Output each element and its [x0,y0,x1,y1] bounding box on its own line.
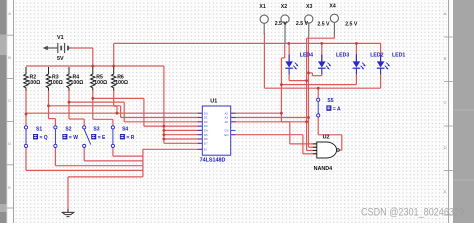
junction at (318.2,88.2) [317,87,320,90]
svg-text:100Ω: 100Ω [115,80,128,86]
resistor R3 [46,67,50,91]
svg-text:X4: X4 [329,4,335,10]
svg-text:S2: S2 [65,127,71,133]
svg-text:E: E [444,189,447,194]
junction at (48.5,105.8) [47,104,50,107]
svg-text:2.5 V: 2.5 V [345,22,358,28]
sheet left margin strip [0,0,7,223]
svg-text:C: C [8,98,11,103]
wire net 5V battery to resistor bus [70,48,93,66]
wire LED3 cathode step to X3 net [309,73,322,76]
gate U2 NAND4 [313,142,340,158]
sheet right border line [448,0,450,223]
wire U1 output A2 [232,112,282,114]
svg-text:2.5 V: 2.5 V [317,22,330,28]
wire LED4 cathode to X4 net [289,74,307,81]
probe X2 [281,15,289,44]
wire probe X4 route to U2 input 3 [307,34,335,151]
junction at (281.4,113.2) [280,112,283,115]
U1 right pin stubs [231,113,236,135]
op U1 74LS148D body [202,106,230,155]
svg-text:V1: V1 [57,35,64,41]
svg-text:U1: U1 [210,98,217,104]
svg-text:S3: S3 [93,127,99,133]
svg-text:EI: EI [204,147,207,151]
resistor R2 [24,67,28,91]
wire 5V rail riser at R6 column [113,43,115,66]
label key W [62,134,78,141]
wire S5 to X1 net [317,88,319,98]
junction at (163.9,126.1) [163,125,166,128]
right zone dividers [444,37,453,215]
svg-text:D: D [8,141,11,146]
svg-text:B: B [444,56,447,61]
resistor R5 [91,67,95,91]
junction at (163.9,130.4) [163,129,166,132]
svg-text:X2: X2 [281,4,287,10]
svg-text:100Ω: 100Ω [71,80,84,86]
resistor R6 [112,67,116,91]
svg-text:= R: = R [126,135,134,141]
svg-text:2.5 V: 2.5 V [275,21,288,27]
svg-text:D7: D7 [204,141,208,145]
wire probe X3 drop to U2 input 2 [309,36,317,147]
wire S5 to U2 output hook [318,117,342,150]
svg-text:= E: = E [98,135,106,141]
junction at (308.5,72.9) [307,72,310,75]
resistor R4 [67,67,71,91]
wire resistor top bus [26,65,164,67]
svg-text:S4: S4 [122,127,128,133]
junction at (92.8,66) [91,65,94,68]
wire net R6 jog to U1 row [114,90,117,113]
label key R [120,134,135,141]
label key A [326,105,341,112]
svg-text:5V: 5V [57,56,64,62]
U1 pin names [204,111,229,151]
junction at (163.9,134.7) [163,133,166,136]
junction at (306.6,80.6) [305,79,308,82]
svg-text:LED1: LED1 [392,52,405,58]
svg-text:LED3: LED3 [336,52,349,58]
svg-text:= A: = A [333,106,341,112]
svg-text:LED4: LED4 [300,52,313,58]
wire probe X1 drop [263,33,265,88]
svg-text:A: A [444,11,447,16]
probe X3 [305,15,313,37]
wire 5V rail to LED anodes [114,42,381,44]
U1 left pin stubs [198,113,203,149]
switch S5 [317,98,320,117]
wire 5V tie vertical to U1 lower pins [164,66,202,143]
junction at (69,102.1) [68,101,71,104]
svg-text:A0: A0 [225,120,229,124]
left zone letters [8,11,11,190]
switch S3 (open) [83,126,91,148]
switch S4 [111,126,114,148]
wire U1 output A1 [232,117,309,119]
svg-text:X3: X3 [306,4,312,10]
junction at (26,114) [25,113,28,116]
wire U1 EO to U2 input 4 [232,135,317,154]
ground [62,209,75,217]
svg-text:2.5 V: 2.5 V [296,21,309,27]
wire LED2 cathode bus to X2 net [281,74,356,85]
svg-text:U2: U2 [323,134,330,140]
svg-text:C: C [444,100,447,105]
svg-text:= W: = W [69,135,78,141]
wire ground feed [68,177,143,212]
junction at (308.5,117.5) [307,116,310,119]
junction at (356.4,43.4) [355,42,358,45]
left zone dividers [7,35,14,208]
switch S1 [24,126,27,148]
svg-text:E: E [8,185,11,190]
svg-text:NAND4: NAND4 [314,166,333,172]
svg-text:CSDN @2301_80246329: CSDN @2301_80246329 [361,206,464,218]
LED1 [377,55,390,75]
svg-text:S1: S1 [36,127,42,133]
LED3 [318,55,331,75]
svg-text:= Q: = Q [40,135,48,141]
wire probe X2 drop and jog to U2 input 1 [281,43,317,143]
wire switch commons to EI bus [26,146,202,177]
probe X4 [330,14,338,34]
battery V1 [47,43,70,53]
junction at (321.8,43.4) [320,42,323,45]
junction at (306.6,121.8) [305,120,308,123]
junction at (163.9,139) [163,138,166,141]
svg-text:100Ω: 100Ω [94,80,107,86]
svg-text:X1: X1 [259,4,265,10]
sheet left border line [13,0,15,223]
svg-text:LED2: LED2 [370,52,383,58]
wire LED anode feeds [289,43,381,61]
svg-text:D: D [444,145,447,150]
svg-text:S5: S5 [327,98,333,104]
switch S2 [54,126,57,148]
svg-text:100Ω: 100Ω [50,80,63,86]
wire U1 output A0 [232,121,307,123]
label key E [91,134,106,141]
svg-text:100Ω: 100Ω [28,80,41,86]
junction at (281.4,84.6) [280,83,283,86]
right gray panel [453,0,474,223]
junction at (288.8,43.4) [287,42,290,45]
wire net R2/S1 to U1 pin D0 [26,90,202,126]
junction at (117,113.2) [116,112,119,115]
junction at (92.8,98.4) [91,97,94,100]
wire net R4/S3 to U1 pin D2 [69,90,202,126]
junction at (113.7,66) [112,65,115,68]
svg-text:A: A [8,11,11,16]
LED2 [353,55,366,75]
label key Q [33,134,48,141]
svg-text:74LS148D: 74LS148D [200,158,226,164]
wire net R5/S4 staircase to U1 pin D3 [93,90,202,126]
svg-text:B: B [8,55,11,60]
right zone letters [444,11,447,194]
wire net R3/S2 to U1 pin D1 [49,90,202,126]
probe X1 [260,15,268,34]
LED4 [285,55,298,75]
wire LED1 cathode bus to X1 net [264,74,380,88]
